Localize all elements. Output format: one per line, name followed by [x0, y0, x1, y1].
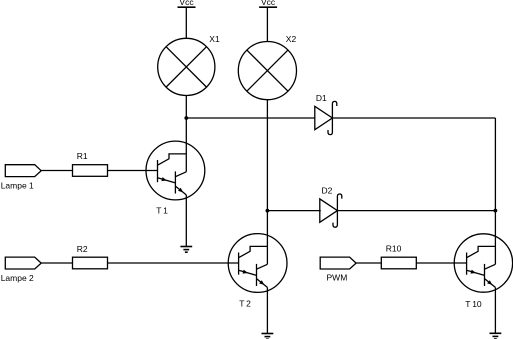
svg-text:Vcc: Vcc: [179, 0, 194, 7]
transistor T2 first emitter: [239, 270, 257, 275]
svg-text:Lampe 2: Lampe 2: [1, 273, 34, 283]
wire node A to D1 anode: [186, 117, 314, 119]
transistor T10 base bar: [466, 253, 468, 275]
transistor T1 first collector: [158, 154, 187, 165]
resistor R1: [73, 165, 108, 177]
wire node A down to T1 collector: [185, 118, 187, 172]
transistor T10 second base bar: [484, 264, 486, 286]
wire lamp X2 down to node B (crosses net A): [266, 100, 268, 211]
wire Vcc to lamp X2: [266, 7, 268, 41]
node B junction dot: [266, 209, 270, 213]
zener diode D2 anode triangle: [320, 199, 338, 222]
wire node C down to T10 collector: [494, 211, 496, 265]
wire Vcc to lamp X1: [185, 7, 187, 38]
input terminal PWM: [320, 257, 356, 269]
transistor T1 second base bar: [174, 171, 176, 193]
transistor T10 second emitter: [485, 279, 496, 288]
transistor T1 second emitter: [175, 186, 186, 195]
input terminal Lampe 1: [5, 165, 41, 177]
transistor T2 second base bar: [256, 264, 258, 286]
svg-text:Lampe 1: Lampe 1: [1, 181, 34, 191]
transistor T2 second collector: [257, 264, 268, 269]
transistor T10 body circle: [454, 234, 512, 292]
svg-text:D1: D1: [316, 93, 327, 103]
node C junction dot: [494, 209, 498, 213]
wire D2 cathode to right rail node C: [337, 210, 495, 212]
transistor T10 first emitter: [467, 270, 485, 275]
wire Lampe 1 terminal to R1: [41, 170, 72, 172]
transistor T2 second emitter: [257, 279, 268, 288]
transistor T10 second collector: [485, 264, 496, 269]
svg-text:R1: R1: [77, 151, 88, 161]
resistor R10: [381, 257, 416, 269]
zener diode D1 cathode bar: [328, 101, 337, 134]
svg-text:X1: X1: [209, 34, 220, 44]
transistor T1 first emitter: [158, 178, 176, 183]
wire R10 to T10 base: [416, 262, 466, 264]
transistor T1 base bar: [157, 160, 159, 182]
transistor T2 first collector: [239, 246, 268, 257]
svg-text:Vcc: Vcc: [261, 0, 276, 7]
svg-text:T 1: T 1: [156, 206, 168, 216]
lamp X2: [238, 42, 296, 100]
svg-text:R10: R10: [386, 244, 402, 254]
svg-text:R2: R2: [77, 244, 88, 254]
svg-text:T 2: T 2: [239, 299, 251, 309]
wire lamp X1 to node A: [185, 96, 187, 119]
transistor T2 base bar: [238, 253, 240, 275]
wire T1 emitter to ground: [185, 195, 187, 247]
svg-text:D2: D2: [322, 185, 333, 195]
wire R2 to T2 base: [108, 262, 239, 264]
wire Lampe 2 terminal to R2: [41, 262, 72, 264]
resistor R2: [73, 257, 108, 269]
wire T10 emitter to ground: [494, 287, 496, 333]
transistor T10 first collector: [467, 246, 496, 257]
svg-text:PWM: PWM: [327, 273, 348, 283]
wire PWM terminal to R10: [356, 262, 381, 264]
transistor T1 body circle: [146, 141, 205, 200]
wire node B to D2 anode: [267, 210, 320, 212]
power Vcc symbol (Vcc net, X1 branch): [178, 6, 196, 8]
wire T2 emitter to ground: [266, 287, 268, 333]
lamp X1: [158, 38, 215, 95]
svg-text:X2: X2: [286, 34, 297, 44]
zener diode D1 anode triangle: [315, 106, 333, 129]
transistor T2 body circle: [228, 234, 287, 293]
svg-text:T 10: T 10: [465, 299, 482, 309]
wire D1 cathode to right rail: [332, 117, 495, 119]
wire R1 to T1 base: [108, 170, 158, 172]
ground below T2: [262, 333, 274, 335]
ground below T1: [180, 246, 192, 248]
node A junction dot: [184, 116, 188, 120]
input terminal Lampe 2: [5, 257, 41, 269]
transistor T1 second collector: [175, 172, 186, 177]
power Vcc symbol (Vcc net, X2 branch): [259, 6, 277, 8]
wire node B down to T2 collector: [266, 211, 268, 265]
ground below T10: [490, 332, 502, 334]
right rail wire, net A corner down to node C: [494, 118, 496, 211]
zener diode D2 cathode bar: [333, 194, 342, 227]
